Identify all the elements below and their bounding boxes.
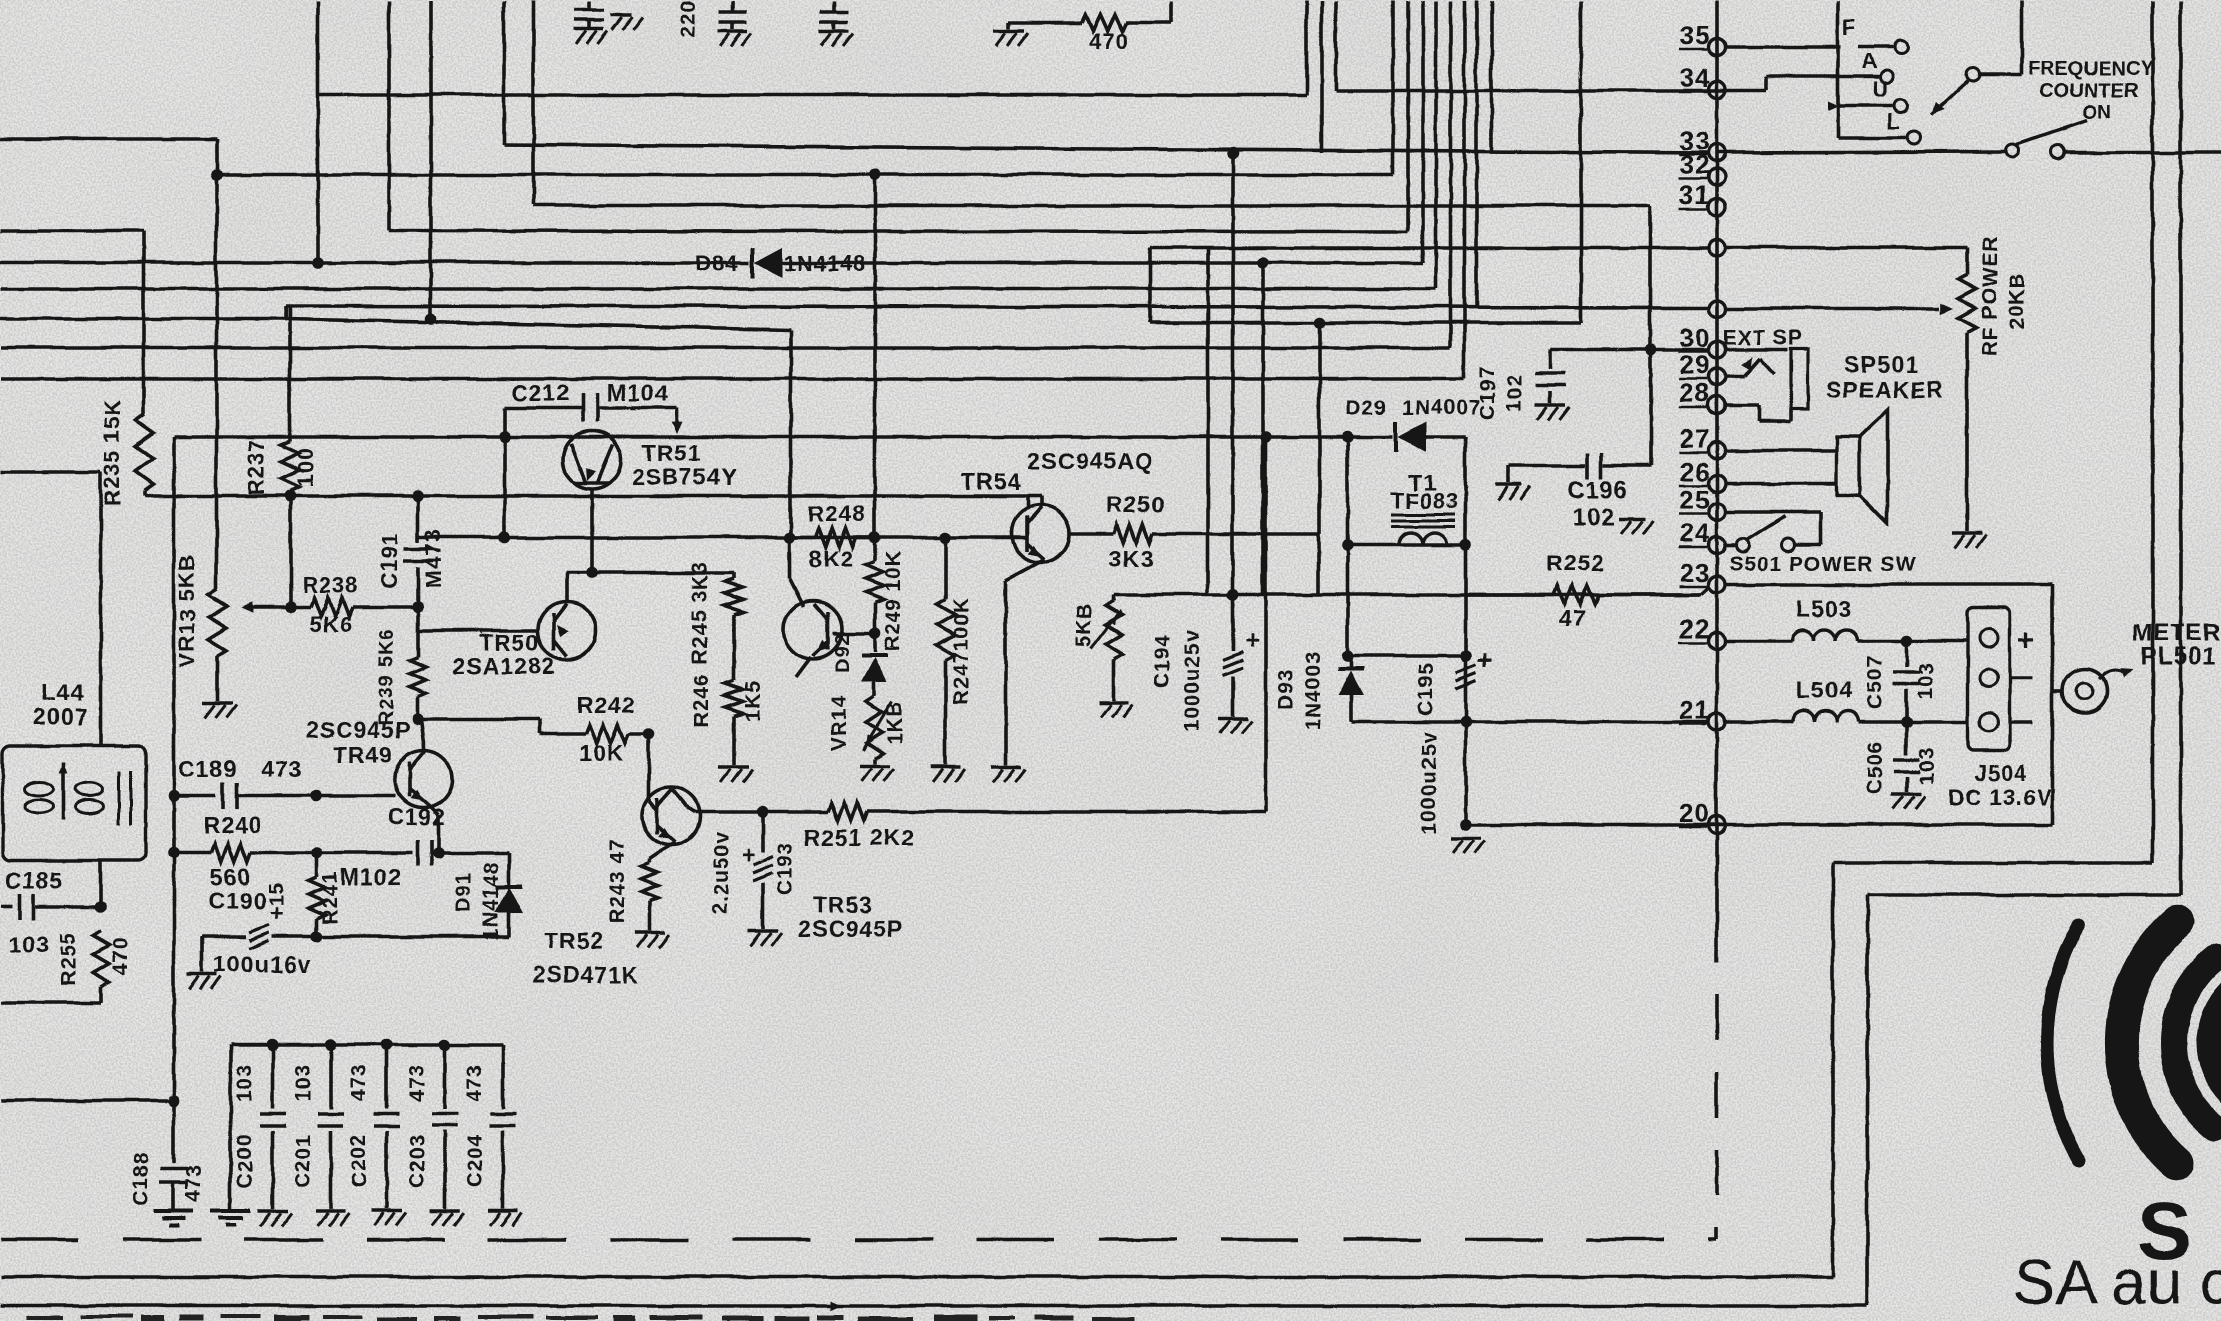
label pin 30 xyxy=(1678,322,1709,352)
label C197 xyxy=(1476,365,1499,419)
diode D91 1N4148 xyxy=(494,852,522,936)
svg-text:8K2: 8K2 xyxy=(808,545,853,571)
svg-text:TF083: TF083 xyxy=(1390,488,1459,513)
capacitor C189 473 xyxy=(222,782,236,808)
svg-text:S501 POWER SW: S501 POWER SW xyxy=(1729,552,1916,575)
label SPEAKER xyxy=(1825,376,1943,402)
svg-text:2SC945P: 2SC945P xyxy=(305,716,410,742)
svg-text:R245 3K3: R245 3K3 xyxy=(688,561,711,664)
label M473 for C191 xyxy=(420,528,445,587)
label 473 for C202 xyxy=(347,1063,370,1101)
label C212 xyxy=(511,379,570,405)
transistor TR52 2SD471K xyxy=(641,786,699,844)
label 47 for R252 xyxy=(1558,604,1586,630)
svg-text:C195: C195 xyxy=(1414,661,1437,715)
wire vertical x1335 xyxy=(1333,0,1337,90)
label 2SB754Y xyxy=(631,463,736,489)
wire pin23 line xyxy=(1725,584,2052,824)
label R239 5K6 xyxy=(375,627,397,725)
label TR49 xyxy=(332,741,392,767)
resistor R250 3K3 xyxy=(1070,524,1318,542)
wire bus y205 xyxy=(533,203,1649,207)
svg-text:2.2u50v: 2.2u50v xyxy=(709,830,732,914)
node junction 873-174 xyxy=(868,168,880,180)
wire vertical 290-606 xyxy=(288,495,292,606)
switch contact L xyxy=(1887,108,1921,144)
wire vertical x1207 xyxy=(1205,247,1209,594)
lamp METER PL501 xyxy=(2052,667,2133,712)
capacitor C192 M102 xyxy=(417,839,431,865)
label 473 for C203 xyxy=(405,1063,428,1101)
label pin 22 xyxy=(1678,613,1709,643)
svg-text:C506: C506 xyxy=(1863,740,1886,794)
svg-text:1N4003: 1N4003 xyxy=(1301,650,1324,730)
node junction 591-572 xyxy=(585,566,597,578)
wire TR49 collector xyxy=(420,718,424,750)
node junction 1906-640 xyxy=(1900,634,1912,646)
svg-text:R238: R238 xyxy=(302,572,359,597)
ground C204 xyxy=(487,1210,521,1225)
label C194 xyxy=(1150,633,1173,687)
svg-text:RF POWER: RF POWER xyxy=(1978,234,2001,355)
wire TR54 collector xyxy=(1027,495,1041,506)
wire TR53mid collector xyxy=(789,537,803,606)
transistor TR49 2SC945P xyxy=(394,749,452,807)
inductor L503 xyxy=(1791,629,1967,640)
ground C196 left xyxy=(1495,484,1529,499)
pin 26 xyxy=(1708,475,1725,492)
svg-text:TR54: TR54 xyxy=(961,468,1021,494)
wire pin21 line right xyxy=(1725,719,1792,723)
node junction 1906-721 xyxy=(1900,715,1912,727)
node junction 316-936 xyxy=(310,930,322,942)
label pin 26 xyxy=(1678,456,1709,486)
svg-text:C191: C191 xyxy=(376,532,401,589)
label S logo xyxy=(2137,1185,2192,1276)
switch contact U xyxy=(1872,76,1907,112)
wire bus y138 xyxy=(0,138,216,174)
label R246 xyxy=(689,673,712,727)
node junction 873-633 xyxy=(868,627,880,639)
svg-text:R250: R250 xyxy=(1106,491,1165,517)
ground R246 xyxy=(718,766,752,781)
label pin 32 xyxy=(1678,149,1709,179)
pin 32 xyxy=(1708,168,1725,185)
label C201 xyxy=(291,1133,314,1187)
pin 28 xyxy=(1708,396,1725,413)
node junction 1265-436 xyxy=(1259,430,1271,442)
label 2.2u50v xyxy=(709,830,732,914)
svg-text:SPEAKER: SPEAKER xyxy=(1825,376,1943,402)
svg-text:103: 103 xyxy=(7,931,48,957)
svg-text:5K6: 5K6 xyxy=(309,611,352,636)
label pin 20 xyxy=(1678,797,1709,827)
label TR54 xyxy=(961,468,1021,494)
wire TR50 base feed xyxy=(417,606,538,630)
svg-text:1000u25v: 1000u25v xyxy=(1180,629,1203,732)
node junction 417-495 xyxy=(411,489,423,501)
transistor TR50 2SA1282 xyxy=(537,601,595,659)
wire bus y537 TR54 base xyxy=(417,535,1008,539)
capacitor C194 1000u25v xyxy=(1222,594,1260,716)
wire TR52 emitter xyxy=(649,841,674,862)
label M104 for C212 xyxy=(606,379,668,405)
svg-text:D91: D91 xyxy=(452,871,475,913)
ground C190 xyxy=(187,974,221,989)
svg-text:1N4148: 1N4148 xyxy=(782,250,865,275)
node junction 430-318 xyxy=(424,312,436,324)
wire bottom cut-off row xyxy=(25,1314,1134,1321)
label R251 2K2 xyxy=(802,824,914,850)
wire vertical x216 long xyxy=(214,174,218,588)
node junction 1319-322 xyxy=(1313,316,1325,328)
resistor R238 5K6 xyxy=(290,597,417,615)
svg-text:35: 35 xyxy=(1679,19,1710,49)
switch wiper freq xyxy=(1930,0,2021,114)
pin 35 xyxy=(1708,38,1725,55)
svg-text:R237: R237 xyxy=(243,438,268,495)
label PL501 xyxy=(2140,642,2216,669)
wire vertical x1321 xyxy=(1319,0,1323,152)
svg-text:32: 32 xyxy=(1679,149,1710,179)
pin 21 xyxy=(1708,713,1725,730)
pin 20 xyxy=(1708,816,1725,833)
label L503 xyxy=(1795,595,1851,621)
label 1KB xyxy=(883,699,906,744)
coil L44 windings xyxy=(24,762,130,824)
ground C203 xyxy=(429,1210,463,1225)
node junction 289-495 xyxy=(283,489,295,501)
svg-text:22: 22 xyxy=(1679,613,1710,643)
label pin 29 xyxy=(1678,349,1709,379)
wire vertical x1319 xyxy=(1317,322,1321,533)
wire vertical x1392 xyxy=(1390,0,1394,174)
wire vertical x173 xyxy=(171,436,175,1100)
svg-text:20: 20 xyxy=(1679,797,1710,827)
wire bus y318 xyxy=(0,305,790,537)
label RF POWER xyxy=(1978,234,2001,355)
capacitor C197 102 xyxy=(1535,349,1565,402)
wire R240 to C192 xyxy=(250,850,412,854)
resistor R249 10K xyxy=(865,537,883,633)
wire TR51 emitter xyxy=(589,487,593,572)
label pin 21 xyxy=(1678,694,1709,724)
wire vertical x1318 xyxy=(1316,533,1320,594)
svg-text:SP501: SP501 xyxy=(1844,351,1918,377)
svg-text:1N4148: 1N4148 xyxy=(479,860,502,940)
svg-text:EXT SP: EXT SP xyxy=(1722,326,1803,349)
wire wiper VR13 xyxy=(240,601,288,612)
svg-text:21: 21 xyxy=(1679,694,1710,724)
wire bus y262 xyxy=(0,260,1422,264)
diode D84 1N4148 xyxy=(751,247,781,277)
node junction 873-537 xyxy=(868,531,880,543)
label R248 xyxy=(807,500,866,526)
svg-text:103: 103 xyxy=(1914,661,1937,699)
svg-text:DC 13.6V: DC 13.6V xyxy=(1948,784,2051,809)
resistor R242 10K xyxy=(540,724,648,742)
svg-text:2SA1282: 2SA1282 xyxy=(452,652,555,678)
label DC 13.6V xyxy=(1948,784,2051,809)
pin 22 xyxy=(1708,632,1725,649)
svg-text:2SC945AQ: 2SC945AQ xyxy=(1027,447,1153,473)
label 103 for C185 xyxy=(7,931,48,957)
node junction 648-733 xyxy=(642,727,654,739)
svg-text:C201: C201 xyxy=(291,1133,314,1187)
resistor R237 100 xyxy=(280,305,298,495)
svg-text:C189: C189 xyxy=(178,755,237,781)
resistor R246 1K5 xyxy=(724,680,742,764)
wire bus y288 xyxy=(0,286,1435,290)
label 2SC945AQ xyxy=(1027,447,1153,473)
capacitor C191 M473 xyxy=(402,495,432,606)
label 2007 xyxy=(32,703,87,729)
ground 5KB pot xyxy=(1098,702,1132,717)
ground R247 xyxy=(930,766,964,781)
svg-text:L: L xyxy=(1887,108,1901,133)
svg-text:470: 470 xyxy=(1088,28,1128,53)
label 10K for R242 xyxy=(578,739,623,765)
node junction 1232-152 xyxy=(1226,146,1238,158)
pin x308 xyxy=(1708,300,1725,317)
svg-text:R249 10K: R249 10K xyxy=(881,549,904,652)
svg-text:L503: L503 xyxy=(1795,595,1851,621)
label COUNTER xyxy=(2039,79,2138,101)
svg-text:TR52: TR52 xyxy=(543,927,603,953)
svg-text:34: 34 xyxy=(1679,62,1710,92)
label pin 28 xyxy=(1678,377,1709,407)
svg-text:26: 26 xyxy=(1679,456,1710,486)
svg-text:1000u25v: 1000u25v xyxy=(1417,731,1440,834)
wire bank bus y1044 xyxy=(230,1042,502,1046)
wire y718 link xyxy=(417,718,540,733)
resistor R240 560 xyxy=(211,843,250,861)
ground VR13 xyxy=(202,702,236,717)
svg-text:31: 31 xyxy=(1679,179,1710,209)
label C185 xyxy=(4,867,63,893)
wire bus y572 xyxy=(565,570,733,574)
svg-text:102: 102 xyxy=(1503,373,1526,411)
wire bus y305 xyxy=(285,305,1709,307)
label 1000u25v for C194 xyxy=(1180,629,1203,732)
wire TR54 base xyxy=(1008,535,1026,539)
potentiometer 5KB xyxy=(1090,594,1121,700)
svg-text:473: 473 xyxy=(260,755,301,781)
label R243 47 xyxy=(605,837,628,923)
node junction bank C202 xyxy=(380,1038,392,1050)
node junction 1232-594 xyxy=(1226,588,1238,600)
wire bank left drop xyxy=(228,1044,232,1208)
resistor R245 3K3 xyxy=(724,572,742,680)
svg-text:D93: D93 xyxy=(1274,667,1297,709)
resistor R255 470 xyxy=(0,930,108,1002)
label 2SC945P for TR49 xyxy=(305,716,410,742)
capacitor C507 103 xyxy=(1893,640,1919,721)
coil L44 2007 can xyxy=(2,745,145,860)
wire vertical x1262 xyxy=(1260,262,1264,594)
svg-text:5KB: 5KB xyxy=(1072,601,1095,646)
wire bus y495 xyxy=(144,495,1027,507)
label pin 24 xyxy=(1678,517,1709,547)
label 103 for C201 xyxy=(291,1063,314,1101)
wire bus y152 left xyxy=(503,144,2005,152)
label pin 33 xyxy=(1678,125,1709,155)
transistor TR53mid 2SC945 xyxy=(783,600,841,658)
ground TR54 emitter xyxy=(990,766,1024,781)
node junction 414-718 xyxy=(411,712,423,724)
label C202 xyxy=(347,1133,370,1187)
label D84 xyxy=(694,250,737,275)
wire bus y174 xyxy=(216,172,1392,176)
svg-text:28: 28 xyxy=(1679,377,1710,407)
label C193 xyxy=(773,841,796,895)
svg-text:27: 27 xyxy=(1679,423,1710,453)
label 470 xyxy=(1088,28,1128,53)
label pin 31 xyxy=(1678,179,1709,209)
wire bus y347 xyxy=(0,345,1450,349)
wire bus y936 xyxy=(202,934,245,938)
svg-text:TR53: TR53 xyxy=(812,891,872,917)
svg-text:D84: D84 xyxy=(694,250,737,275)
svg-text:R239 5K6: R239 5K6 xyxy=(375,627,397,725)
label 1N4148 for D91 xyxy=(479,860,502,940)
label L504 xyxy=(1796,676,1852,702)
capacitor C188 473 xyxy=(159,1100,187,1208)
node junction 1465-544 xyxy=(1459,538,1471,550)
capacitor C202 473 xyxy=(373,1044,399,1208)
svg-text:C507: C507 xyxy=(1863,654,1886,708)
ground R243 xyxy=(634,932,668,947)
wire vertical x1435 xyxy=(1433,0,1437,288)
svg-text:1KB: 1KB xyxy=(883,699,906,744)
wire bus y594 xyxy=(1113,586,1709,594)
label C192 xyxy=(387,803,446,829)
diode D92 xyxy=(861,633,887,681)
wire vertical x1476 xyxy=(1474,0,1478,306)
transistor TR54 2SC945AQ xyxy=(1011,504,1069,562)
node junction 172-795 xyxy=(167,789,179,801)
pin 23 xyxy=(1708,576,1725,593)
inductor L504 xyxy=(1792,710,1967,721)
svg-text:1N4007: 1N4007 xyxy=(1401,396,1481,419)
label ON xyxy=(2081,101,2111,123)
capacitor C204 473 xyxy=(489,1044,515,1208)
switch contact A xyxy=(1861,48,1893,83)
ground C196 right xyxy=(1618,518,1652,533)
svg-text:103: 103 xyxy=(1915,746,1938,784)
svg-text:D92: D92 xyxy=(831,632,853,672)
svg-text:C196: C196 xyxy=(1566,476,1627,503)
svg-text:C203: C203 xyxy=(405,1133,428,1187)
wire bus y378 xyxy=(0,376,1464,380)
wire pin26 to speaker xyxy=(1725,481,1836,485)
wire bus y322 xyxy=(1149,320,1580,324)
wire C189 line y795 xyxy=(173,793,215,797)
wire TR52 base xyxy=(648,733,656,810)
label R255 xyxy=(56,931,79,985)
svg-text:R240: R240 xyxy=(203,811,262,837)
label 473 for C204 xyxy=(463,1063,486,1101)
wire bus y230 right xyxy=(388,230,1407,231)
svg-text:+: + xyxy=(2017,624,2036,657)
node junction bank C200 xyxy=(266,1038,278,1050)
capacitor C506 103 xyxy=(1893,721,1919,792)
svg-text:1K5: 1K5 xyxy=(741,679,764,721)
node junction 762-811 xyxy=(756,805,768,817)
label 102 for C197 xyxy=(1503,373,1526,411)
switch S501 POWER SW xyxy=(1725,511,1820,551)
wire T1 right vertical xyxy=(1463,436,1467,824)
svg-text:R247100K: R247100K xyxy=(949,596,972,704)
node junction 316-795 xyxy=(310,789,322,801)
label 5KB xyxy=(1072,601,1095,646)
wire pin30 line xyxy=(1550,347,1709,351)
label 470 for R255 xyxy=(108,936,131,974)
svg-text:24: 24 xyxy=(1679,517,1710,547)
wire pin27 to speaker xyxy=(1725,448,1836,452)
label 2SD471K xyxy=(532,961,639,987)
wire vertical x533 xyxy=(531,0,535,205)
wire arrow on rail B xyxy=(829,1300,840,1310)
svg-text:SA au ca: SA au ca xyxy=(2013,1247,2221,1317)
pin 30 xyxy=(1708,341,1725,358)
label pin 27 xyxy=(1678,423,1709,453)
svg-text:560: 560 xyxy=(209,863,250,889)
wire bus y230 left xyxy=(0,228,143,232)
potentiometer RF POWER 20KB xyxy=(1723,247,1975,530)
svg-text:TR49: TR49 xyxy=(332,741,392,767)
label C507 xyxy=(1863,654,1886,708)
node junction 504-436 xyxy=(498,430,510,442)
capacitor C203 473 xyxy=(431,1044,457,1208)
label R247 100K xyxy=(949,596,972,704)
wire bus y90 xyxy=(1335,76,1878,90)
potentiometer VR13 5KB xyxy=(208,588,226,700)
svg-text:U: U xyxy=(1872,76,1889,101)
svg-text:C192: C192 xyxy=(387,803,446,829)
svg-text:C204: C204 xyxy=(463,1133,486,1187)
resistor R239 5K6 xyxy=(409,630,425,718)
node junction 1347-436 xyxy=(1341,430,1353,442)
label pin 35 xyxy=(1678,19,1709,49)
speaker SP501 xyxy=(1836,409,1887,522)
svg-text:102: 102 xyxy=(1571,503,1614,530)
wire TR50 emitter up xyxy=(564,572,568,602)
label TF083 xyxy=(1390,488,1459,513)
label 473 for C188 xyxy=(182,1163,205,1201)
switch ON contacts xyxy=(2006,120,2087,159)
wire bus y247 xyxy=(1149,245,1709,249)
ground C188 xyxy=(153,1210,193,1224)
pin x247 xyxy=(1708,239,1725,256)
label TR53 xyxy=(812,891,872,917)
wire TR53mid emitter xyxy=(795,656,810,676)
wire dashed boundary xyxy=(0,915,1716,1239)
wire RF wiper xyxy=(1723,302,1952,313)
svg-text:+: + xyxy=(1244,624,1260,654)
resistor R241 xyxy=(308,852,324,936)
svg-text:2SD471K: 2SD471K xyxy=(532,961,639,987)
ground C195 xyxy=(1450,838,1484,853)
svg-text:470: 470 xyxy=(108,936,131,974)
label 5K6 for R238 xyxy=(309,611,352,636)
pin 34 xyxy=(1708,81,1725,98)
wire bus y824 pin20 xyxy=(1465,822,2052,826)
svg-text:D29: D29 xyxy=(1345,396,1387,419)
wire TR49 emitter xyxy=(427,803,438,852)
node junction 216-174 xyxy=(210,168,222,180)
label L44 xyxy=(41,679,84,705)
